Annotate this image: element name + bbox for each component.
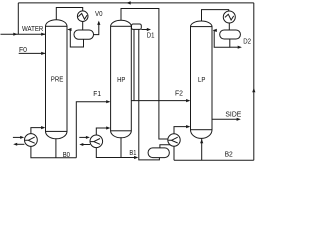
column HP — [111, 20, 132, 138]
arrowhead top header flow left — [126, 1, 130, 4]
arrowhead R2 vapor into HP — [106, 126, 110, 129]
arrowhead F2 into LP — [186, 99, 190, 102]
wire steam out R1 — [16, 143, 24, 145]
wire R3 condensate to drum — [160, 145, 171, 148]
arrowhead steam out R1 — [13, 143, 17, 146]
svg-text:D2: D2 — [243, 36, 251, 45]
column PRE — [46, 20, 68, 139]
wire R1 vapor return — [31, 128, 44, 134]
arrowhead F0 into PRE — [41, 52, 45, 55]
wire F2 line HP to LP — [131, 100, 189, 102]
svg-text:F0: F0 — [19, 45, 27, 54]
arrowhead F1 into HP — [106, 100, 110, 103]
arrowhead steam out R2 — [79, 143, 83, 146]
arrowhead recycle up right side — [252, 88, 255, 92]
wire steam out R2 — [82, 144, 90, 146]
arrowhead LP downcomer up — [200, 139, 203, 143]
arrowhead R1 vapor into PRE — [41, 126, 45, 129]
svg-text:PRE: PRE — [51, 75, 64, 84]
wire R2 bottoms loop — [96, 148, 136, 158]
wire PRE vapor line — [56, 8, 82, 20]
drum D2 accumulator — [220, 30, 241, 39]
condenser circle C3 — [223, 11, 235, 23]
arrowhead SIDE product — [237, 118, 241, 121]
wire LP reflux return — [214, 30, 230, 47]
arrowhead D2 product — [238, 46, 242, 49]
reboiler R3 circle — [168, 134, 180, 146]
wire HP vapor line to R3 — [121, 9, 168, 140]
drum condensate bottom — [148, 148, 169, 158]
arrowhead steam in R1 — [20, 136, 24, 139]
wire LP bottoms downcomer — [201, 138, 203, 160]
wire D1 reflux line — [133, 29, 135, 100]
svg-text:B1: B1 — [129, 148, 136, 157]
arrowhead R3 vapor into LP — [186, 125, 190, 128]
svg-text:B2: B2 — [225, 149, 233, 158]
wire PRE bottoms downcomer — [55, 139, 57, 158]
arrowhead water into PRE — [41, 33, 45, 36]
reboiler R2 circle — [90, 135, 103, 148]
wire HP bottoms downcomer — [120, 137, 122, 157]
reboiler R1 circle — [25, 134, 38, 147]
wire D1 product — [141, 29, 149, 31]
wire top recycle header — [18, 2, 254, 4]
arrowhead steam in R2 — [86, 136, 90, 139]
wire condensate riser to D1 drum — [139, 29, 160, 160]
wire steam in R2 — [79, 136, 86, 138]
svg-text:F2: F2 — [175, 88, 183, 97]
arrowhead D1 product — [147, 28, 151, 31]
arrowhead V0 up — [97, 21, 100, 25]
svg-text:V0: V0 — [95, 9, 103, 18]
wire F1 riser — [76, 102, 109, 158]
svg-text:HP: HP — [117, 75, 125, 84]
drum D1 accumulator — [132, 24, 142, 29]
drum reflux D0 — [74, 30, 94, 39]
wire LP vapor line — [202, 10, 229, 21]
condenser circle C1 — [77, 11, 88, 22]
wire D2 product — [230, 46, 241, 48]
wire R3 vapor return to LP — [174, 127, 189, 134]
wire R1 bottoms loop — [31, 146, 76, 157]
arrowhead water mid — [13, 33, 17, 36]
svg-text:SIDE: SIDE — [225, 110, 241, 119]
wire condenser3 to drum — [228, 23, 230, 30]
wire R3 bottoms drop — [173, 146, 175, 160]
arrowhead reflux1 into PRE — [67, 28, 71, 31]
wire condenser to drum — [82, 22, 84, 31]
arrowhead B1 into riser — [134, 156, 138, 159]
svg-text:F1: F1 — [93, 89, 101, 98]
wire steam in R1 — [13, 136, 21, 138]
wire reflux return PRE — [68, 30, 83, 48]
svg-text:LP: LP — [198, 75, 205, 84]
wire WATER riser — [17, 3, 19, 34]
wire right recycle downcomer — [253, 3, 255, 160]
wire V0 product — [94, 22, 99, 35]
svg-text:D1: D1 — [147, 31, 155, 40]
column LP — [191, 21, 213, 138]
wire SIDE draw — [212, 118, 239, 120]
wire bottom-right B2 manifold — [174, 159, 254, 161]
wire F0 feed — [19, 52, 45, 54]
wire R2 vapor return — [96, 128, 109, 135]
arrowhead reflux3 into LP — [213, 29, 217, 32]
svg-text:WATER: WATER — [22, 24, 44, 33]
wire WATER inlet — [1, 33, 46, 35]
svg-text:B0: B0 — [63, 150, 70, 159]
